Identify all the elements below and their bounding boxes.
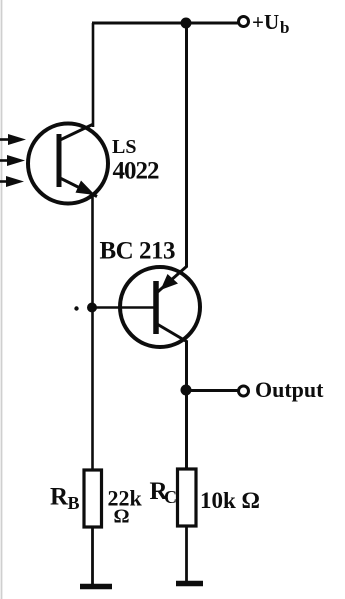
transistor Q1 BC213 body circle: [120, 267, 200, 347]
label RB: [50, 484, 80, 514]
wire left rail from phototransistor emitter to RB: [91, 194, 94, 471]
svg-text:Ω: Ω: [114, 506, 130, 528]
svg-text:4022: 4022: [113, 158, 160, 185]
wire left rail from top rail down to phototransistor collector: [92, 23, 95, 127]
phototransistor collector lead: [60, 124, 94, 140]
node junction on top rail: [181, 18, 192, 29]
wire right rail top segment: [185, 23, 188, 268]
svg-text:Output: Output: [255, 377, 324, 402]
phototransistor emitter lead: [60, 178, 97, 197]
BC213 emitter arrow: [161, 274, 179, 290]
wire RB to ground: [91, 526, 94, 588]
light arrow 2: [0, 155, 25, 166]
svg-text:C: C: [164, 487, 177, 507]
svg-text:LS: LS: [112, 136, 136, 158]
BC213 base bar: [153, 281, 159, 334]
svg-text:10k Ω: 10k Ω: [200, 488, 260, 513]
terminal +Ub open circle: [239, 17, 249, 27]
wire RC to ground: [185, 525, 188, 585]
wire to output terminal: [186, 389, 239, 392]
label +Ub: [252, 10, 289, 37]
ground bar under RC: [176, 581, 203, 587]
light arrow 1: [0, 134, 26, 145]
node junction at BC213 base: [87, 303, 97, 313]
label RC: [150, 478, 178, 507]
terminal Output open circle: [239, 386, 249, 396]
BC213 collector lead: [157, 324, 188, 342]
resistor R_C body: [178, 469, 197, 526]
wire BC213 base lead: [93, 306, 155, 309]
wire right rail middle segment: [185, 341, 188, 470]
svg-text:R: R: [50, 484, 69, 511]
resistor R_B body: [84, 470, 102, 527]
ground bar under RB: [80, 584, 112, 590]
phototransistor emitter arrow: [76, 181, 96, 196]
scan edge artifact line: [1, 0, 3, 599]
BC213 emitter lead: [157, 267, 187, 293]
svg-text:b: b: [280, 18, 289, 37]
svg-text:B: B: [68, 493, 80, 513]
node junction at output: [181, 385, 192, 396]
svg-text:+U: +U: [252, 10, 279, 34]
wire top supply rail: [92, 22, 239, 25]
svg-text:BC 213: BC 213: [100, 238, 175, 265]
phototransistor base bar: [57, 134, 62, 187]
phototransistor U1 LS4022 body circle: [28, 124, 108, 204]
light arrow 3: [0, 176, 24, 187]
ink speck node left of junction: [74, 306, 78, 310]
